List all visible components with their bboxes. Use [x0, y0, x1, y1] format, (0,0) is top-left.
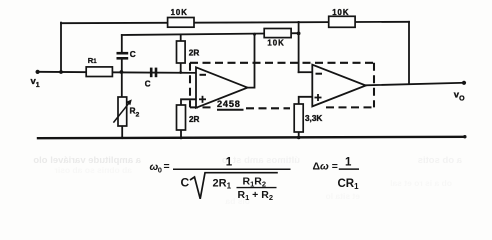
op-amp U1 triangle [196, 67, 248, 108]
resistor 2R (top, U1 feedback) [177, 41, 186, 63]
op-amp U2 minus pin mark [316, 73, 323, 75]
svg-text:10K: 10K [332, 8, 349, 17]
node: input/top-rail junction [59, 70, 63, 74]
resistor R2 (variable) [118, 97, 127, 126]
wire: input from v1 terminal through R1 and series C to op-amp U1 minus input [38, 72, 196, 73]
wire: node A rail (op-amp U1 output feedback bus) [122, 33, 299, 35]
op-amp U2 plus pin mark [315, 94, 322, 101]
wire: right vertical from top rail down to output wire [408, 22, 410, 84]
wire: op-amp U1 plus input to 2R bottom [181, 99, 196, 105]
node: vO output terminal [462, 81, 466, 85]
formula: omega0 = 1 / (C*sqrt(2R1*R1R2/(R1+R2))) [150, 157, 291, 202]
svg-text:R1 + R2: R1 + R2 [238, 189, 274, 202]
svg-text:Δω =: Δω = [313, 161, 338, 173]
bleed-through faint text band 2 [54, 165, 452, 206]
svg-text:ab obnis so ab osir: ab obnis so ab osir [54, 165, 132, 175]
wire: 2R top resistor leads [180, 34, 182, 41]
bleed-through faint text band 1 right of formula [222, 155, 462, 166]
svg-text:2458: 2458 [217, 99, 241, 109]
node: v1 input terminal [36, 70, 40, 74]
svg-text:C: C [130, 50, 136, 59]
node B: summing junction [297, 32, 301, 36]
wire: ground rail [38, 137, 465, 138]
wire: vertical from input node up to top feedback rail [60, 23, 62, 72]
wire: top feedback rail (input node to output node through both 10K) [61, 22, 409, 23]
wire: output from op-amp U2 apex to vO terminal [366, 83, 464, 86]
svg-text:10K: 10K [171, 8, 188, 17]
arrow of variable resistor R2 [113, 99, 131, 122]
bleed-through faint mirrored text band 1 left [33, 155, 141, 166]
wire: R2 bottom lead to ground rail [121, 126, 123, 138]
svg-text:=: = [164, 160, 170, 172]
resistor 10K (top left) [168, 18, 194, 28]
svg-text:0: 0 [158, 165, 162, 174]
svg-text:últimos amb st lo: últimos amb st lo [222, 155, 300, 166]
resistor 10K (middle, U1 output to node B) [264, 29, 291, 38]
svg-text:3,3K: 3,3K [305, 114, 322, 123]
op-amp U2 triangle [312, 65, 366, 107]
op-amp U1 plus pin mark [199, 96, 206, 103]
svg-text:C: C [181, 176, 190, 190]
wire: node B vertical (rail to op-amp U2 minus input) [298, 22, 300, 72]
svg-text:10K: 10K [267, 39, 284, 48]
node: 3,3K on ground rail [297, 136, 301, 140]
wire: 3,3K bottom lead to ground rail [298, 132, 300, 138]
wire: R2 top lead from input node [121, 72, 123, 97]
wire: capacitor C1 branch vertical upper [121, 35, 123, 52]
svg-text:a ob sotis: a ob sotis [418, 155, 462, 166]
capacitor C2 (series input C) plates [151, 68, 156, 78]
op-amp U1 minus pin mark [200, 74, 207, 76]
wire: capacitor C1 branch vertical lower [121, 59, 123, 72]
svg-text:et sita lo: et sita lo [326, 191, 360, 201]
svg-text:1: 1 [345, 156, 352, 168]
node X: R1 / C / R2 junction [120, 70, 124, 74]
wire: op-amp U1 output up to node A rail [248, 34, 255, 87]
node: ground rail right end [463, 135, 466, 138]
svg-text:2R: 2R [189, 115, 200, 124]
wire: op-amp U2 minus input [299, 71, 313, 73]
formula: delta omega = 1/(C R1) [313, 156, 360, 191]
resistor 2R (bottom, U1 plus to ground) [177, 105, 186, 130]
node: R2 on ground rail [121, 137, 124, 140]
node A: U1 output on rail [253, 33, 256, 36]
wire: 2R bottom resistor to ground rail [180, 130, 182, 138]
dashed package outline of dual op-amp 2458 [190, 63, 374, 110]
wire: op-amp U2 plus input to 3,3K [299, 97, 313, 104]
svg-text:1: 1 [226, 157, 233, 169]
node: 2R on ground rail [180, 137, 183, 140]
resistor R1 [86, 67, 112, 77]
svg-text:ob a is ro et sal: ob a is ro et sal [390, 178, 452, 188]
resistor 3,3K [294, 104, 303, 132]
svg-text:2R: 2R [189, 48, 200, 57]
svg-text:C: C [145, 80, 151, 89]
capacitor C1 (parallel feedback C) plates [117, 53, 129, 58]
resistor 10K (top right feedback) [329, 16, 355, 27]
node: 2R lead on U1 minus wire [179, 71, 182, 74]
